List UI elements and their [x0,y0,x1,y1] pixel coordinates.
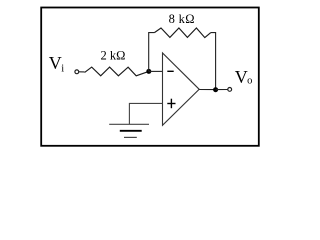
wire noninverting input [129,103,162,124]
svg-text:V: V [235,67,248,87]
wire to output terminal [216,89,228,91]
wire output [199,89,215,91]
wire feedback riser [149,33,155,72]
op-amp U1 [163,53,200,125]
svg-text:i: i [61,63,64,74]
wire feedback to output [211,33,216,90]
svg-text:2 kΩ: 2 kΩ [101,49,126,63]
ground [109,123,149,125]
node A junction dot [146,69,151,74]
wire node to inverting input [149,70,163,72]
output terminal [228,88,232,92]
resistor R1 2 kOhm [85,67,149,76]
svg-text:o: o [247,76,252,87]
pin plus [167,103,175,105]
input terminal [75,70,79,74]
border frame [41,8,259,146]
svg-text:8 kΩ: 8 kΩ [169,12,195,26]
svg-text:V: V [49,53,62,73]
wire input lead [79,71,85,73]
pin minus [167,70,173,72]
resistor R2 8 kOhm [154,28,210,38]
node output junction dot [213,87,218,92]
